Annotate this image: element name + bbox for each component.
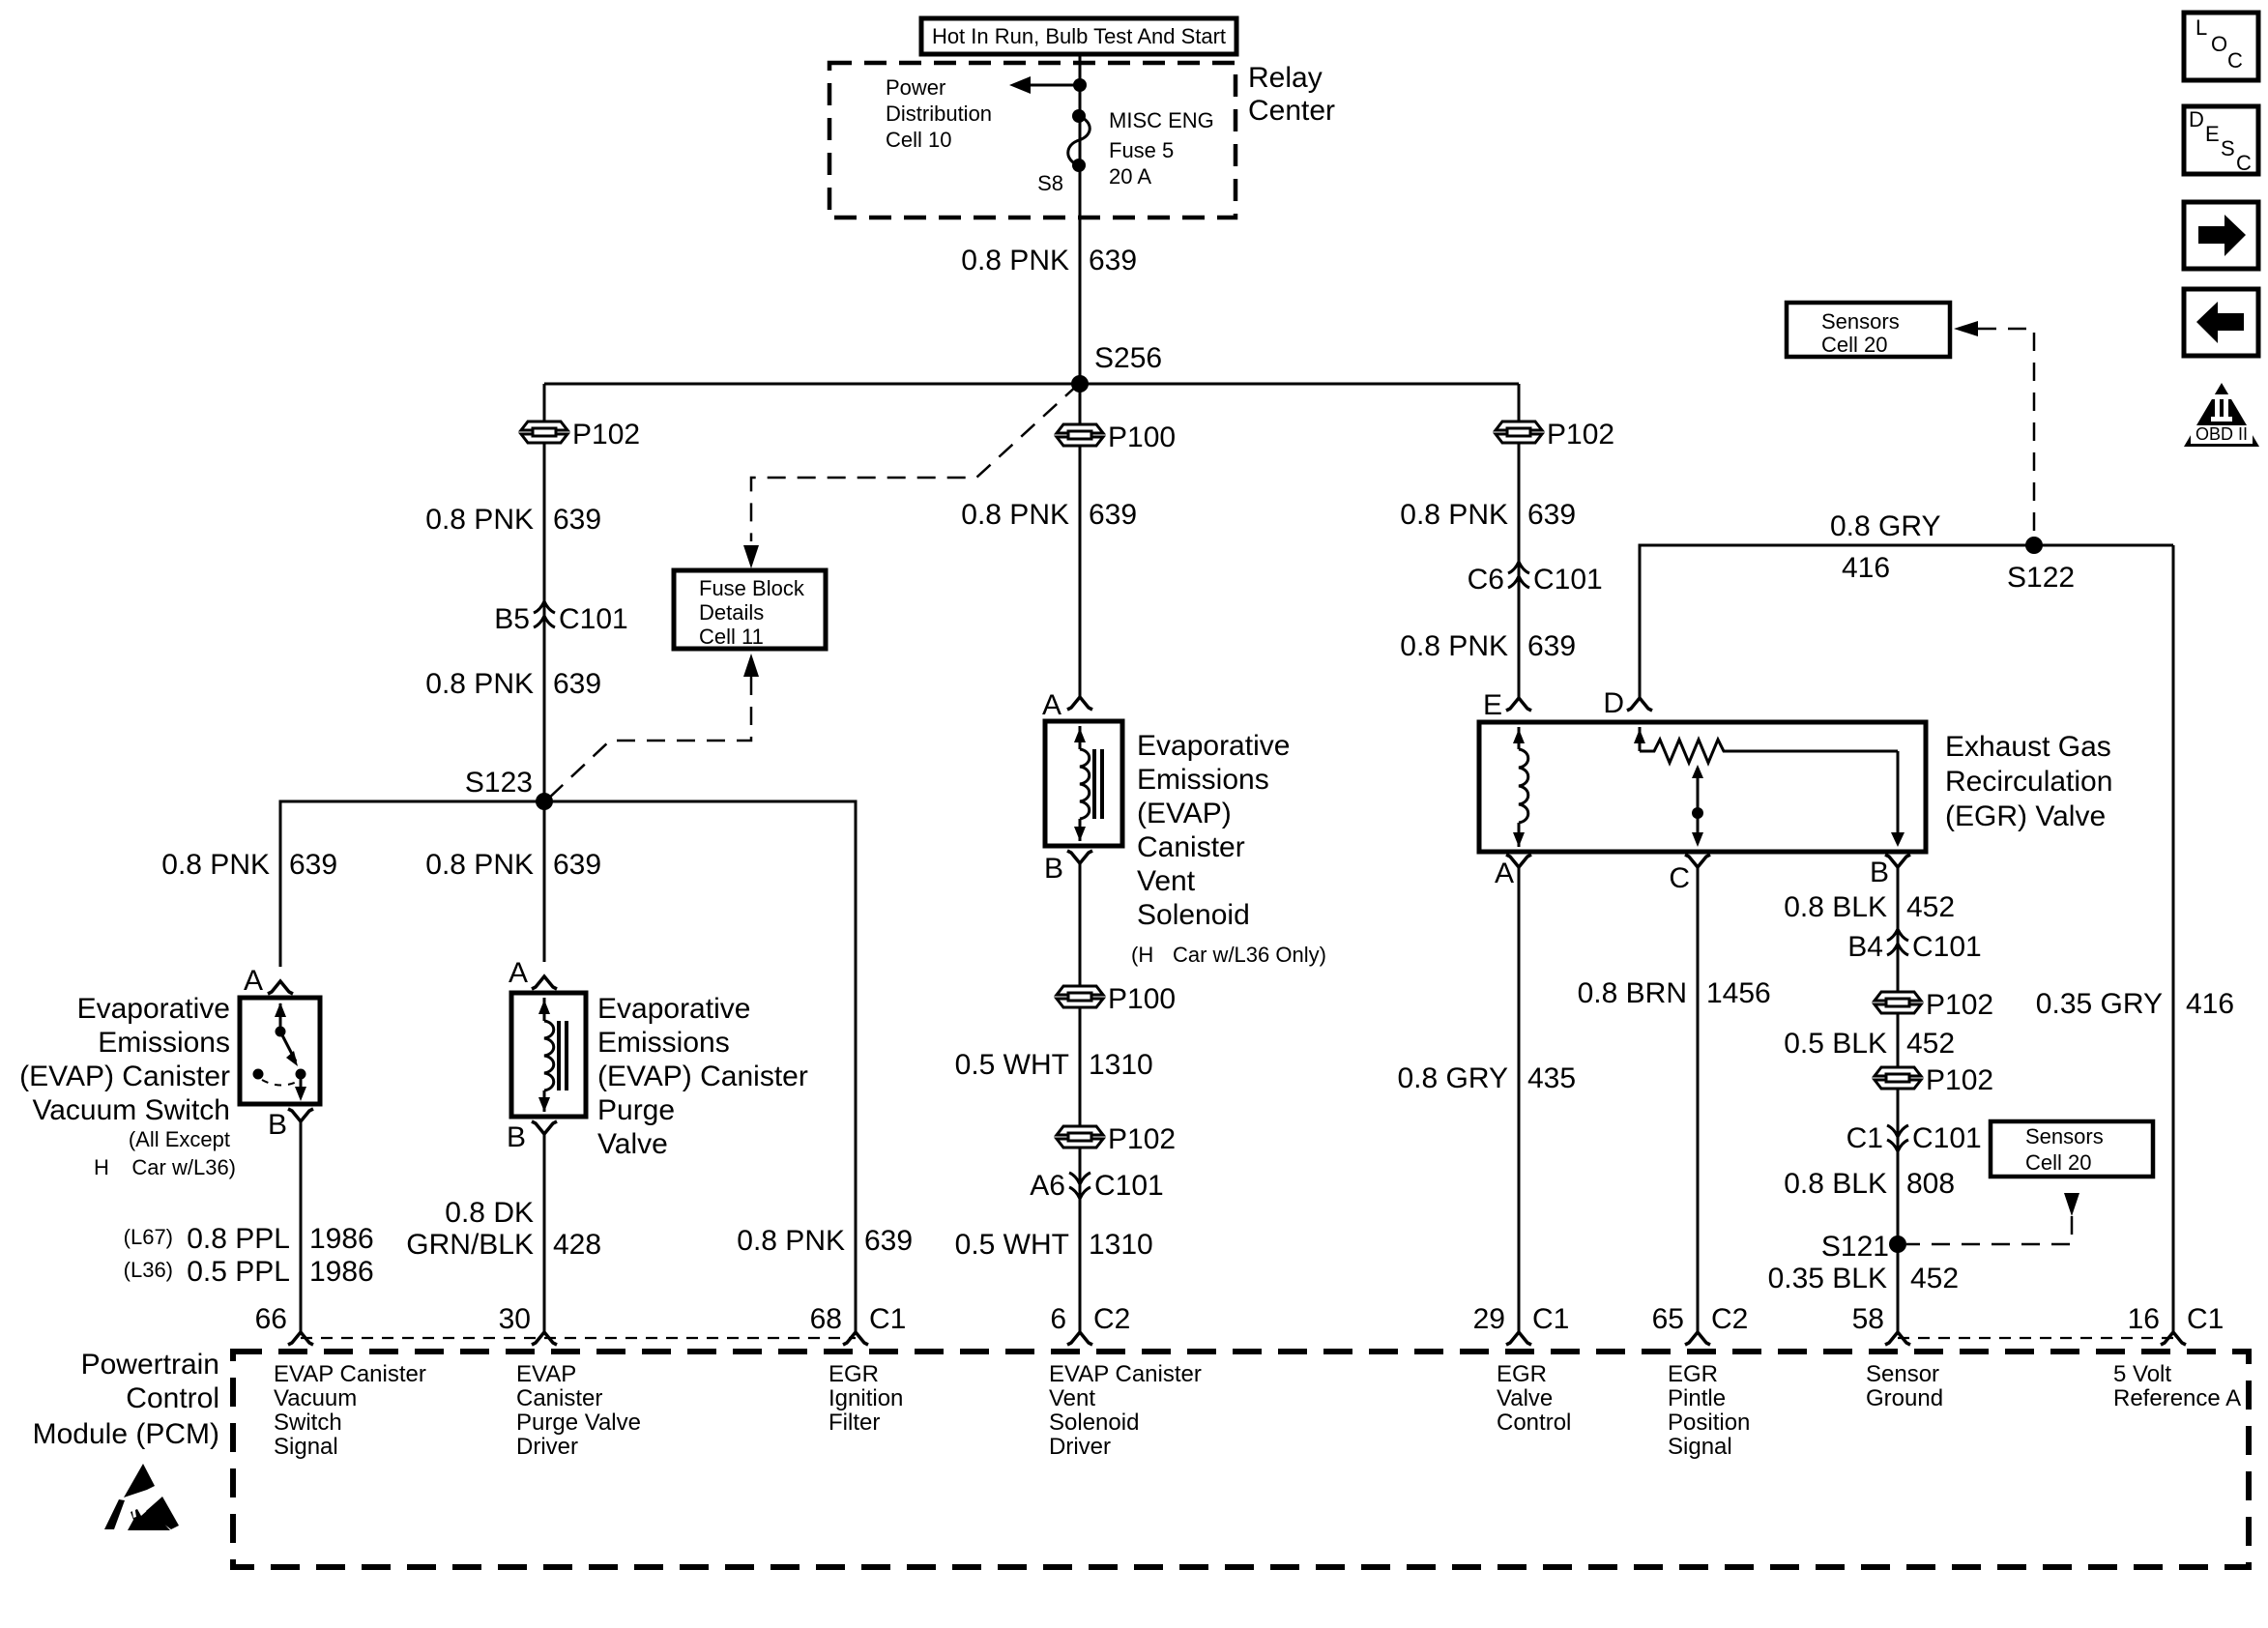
label 0.8 PNK 639 (middle) bbox=[961, 499, 1137, 531]
label MISC ENG Fuse 5 20 A bbox=[1109, 108, 1214, 189]
svg-text:Solenoid: Solenoid bbox=[1137, 899, 1250, 931]
svg-text:Switch: Switch bbox=[274, 1410, 342, 1436]
vent solenoid coil bbox=[1074, 726, 1102, 841]
PCM pin 30 fork bbox=[532, 1332, 557, 1345]
svg-text:D: D bbox=[1603, 687, 1624, 719]
svg-text:(L36): (L36) bbox=[124, 1258, 173, 1282]
svg-text:O: O bbox=[2211, 32, 2227, 56]
svg-text:Purge Valve: Purge Valve bbox=[516, 1410, 641, 1436]
svg-text:0.5 PPL: 0.5 PPL bbox=[187, 1256, 290, 1288]
svg-text:C1: C1 bbox=[1846, 1122, 1883, 1154]
svg-text:0.8 BLK: 0.8 BLK bbox=[1784, 891, 1887, 923]
svg-text:OBD II: OBD II bbox=[2195, 424, 2248, 444]
svg-text:0.8 BRN: 0.8 BRN bbox=[1578, 977, 1687, 1009]
label B5 C101 bbox=[494, 603, 627, 635]
label EGR Pintle Position Signal bbox=[1668, 1361, 1750, 1460]
Sensors Cell 20 box (lower) bbox=[1991, 1121, 2153, 1177]
svg-text:452: 452 bbox=[1906, 1028, 1955, 1060]
connector P102 (left branch) bbox=[521, 422, 567, 443]
node junction at Power Distribution tap bbox=[1073, 78, 1087, 92]
svg-text:A: A bbox=[509, 957, 528, 989]
svg-text:Reference A: Reference A bbox=[2113, 1385, 2241, 1411]
svg-text:Fuse Block: Fuse Block bbox=[699, 576, 805, 600]
svg-text:A: A bbox=[1042, 689, 1061, 721]
svg-text:(EVAP) Canister: (EVAP) Canister bbox=[597, 1061, 808, 1092]
wire S123 right branch to pin 68 bbox=[544, 801, 856, 1331]
svg-text:Hot In Run, Bulb Test And Star: Hot In Run, Bulb Test And Start bbox=[932, 24, 1226, 48]
connector P102 (B column upper) bbox=[1875, 992, 1921, 1013]
label 0.8 GRY 416 bbox=[1830, 510, 1941, 584]
icon OBD II triangle bbox=[2184, 383, 2259, 447]
label EVAP Canister Vent Solenoid Driver bbox=[1049, 1361, 1202, 1460]
svg-text:(L67): (L67) bbox=[124, 1225, 173, 1249]
icon LOC box bbox=[2184, 13, 2258, 80]
svg-text:B: B bbox=[1870, 857, 1889, 888]
svg-text:Module (PCM): Module (PCM) bbox=[33, 1418, 219, 1450]
svg-text:Center: Center bbox=[1248, 95, 1335, 127]
connector P102 (middle) bbox=[1057, 1126, 1103, 1148]
svg-text:0.8 DK: 0.8 DK bbox=[445, 1197, 534, 1229]
arrow to Power Distribution bbox=[1009, 76, 1031, 94]
node S122 bbox=[2025, 537, 2043, 554]
svg-text:Power: Power bbox=[886, 75, 945, 100]
label (L36) 0.5 PPL 1986 bbox=[124, 1256, 374, 1288]
svg-text:Distribution: Distribution bbox=[886, 102, 992, 126]
label 0.35 GRY 416 bbox=[2036, 988, 2234, 1020]
svg-text:C2: C2 bbox=[1093, 1303, 1130, 1335]
svg-text:B4: B4 bbox=[1847, 931, 1883, 963]
pin A fork (EGR) bbox=[1506, 855, 1531, 867]
svg-text:C: C bbox=[2227, 48, 2243, 73]
label 0.8 PNK 639 bbox=[425, 504, 601, 536]
reference dashed line S256 to Fuse Block Details bbox=[751, 384, 1079, 541]
svg-text:EVAP Canister: EVAP Canister bbox=[1049, 1361, 1202, 1387]
icon DESC box bbox=[2184, 106, 2258, 175]
label Powertrain Control Module (PCM) bbox=[33, 1349, 219, 1450]
svg-text:Signal: Signal bbox=[1668, 1434, 1732, 1460]
svg-text:6: 6 bbox=[1050, 1303, 1066, 1335]
pin B fork (vacuum switch) bbox=[288, 1109, 313, 1121]
svg-text:P102: P102 bbox=[1926, 1064, 1993, 1096]
svg-text:Cell 20: Cell 20 bbox=[1821, 333, 1887, 357]
svg-text:C6: C6 bbox=[1468, 564, 1504, 596]
fuse box label "Hot In Run, Bulb Test And Start" bbox=[921, 18, 1236, 54]
svg-text:S122: S122 bbox=[2007, 562, 2075, 594]
svg-text:Valve: Valve bbox=[597, 1128, 668, 1160]
svg-text:Cell 20: Cell 20 bbox=[2025, 1150, 2091, 1175]
label Evaporative Emissions (EVAP) Canister Purge Valve bbox=[597, 993, 808, 1160]
arrow from Sensors box toward S121 bbox=[2064, 1193, 2079, 1216]
svg-text:Vacuum: Vacuum bbox=[274, 1385, 357, 1411]
svg-text:Evaporative: Evaporative bbox=[1137, 730, 1290, 762]
svg-text:S8: S8 bbox=[1037, 171, 1063, 195]
svg-text:Evaporative: Evaporative bbox=[77, 993, 230, 1025]
pin B fork (EGR) bbox=[1885, 855, 1910, 867]
pin A fork (purge valve) bbox=[532, 976, 557, 989]
label 0.5 BLK 452 bbox=[1784, 1028, 1955, 1060]
svg-text:20 A: 20 A bbox=[1109, 164, 1151, 189]
label B4 C101 bbox=[1847, 931, 1981, 963]
svg-text:Exhaust Gas: Exhaust Gas bbox=[1945, 731, 2111, 763]
svg-text:Driver: Driver bbox=[1049, 1434, 1111, 1460]
svg-text:C1: C1 bbox=[1532, 1303, 1569, 1335]
EVAP canister vent solenoid box bbox=[1045, 721, 1122, 846]
svg-text:(EVAP): (EVAP) bbox=[1137, 798, 1232, 829]
svg-text:C: C bbox=[1669, 862, 1690, 894]
svg-text:808: 808 bbox=[1906, 1168, 1955, 1200]
svg-text:C101: C101 bbox=[1912, 931, 1982, 963]
svg-text:Emissions: Emissions bbox=[597, 1027, 730, 1059]
svg-text:Solenoid: Solenoid bbox=[1049, 1410, 1139, 1436]
svg-text:639: 639 bbox=[553, 504, 601, 536]
svg-text:30: 30 bbox=[499, 1303, 531, 1335]
svg-text:Sensor: Sensor bbox=[1866, 1361, 1939, 1387]
arrow into Sensors box bbox=[1954, 321, 1978, 336]
svg-text:0.35 BLK: 0.35 BLK bbox=[1768, 1263, 1887, 1294]
pin B fork (purge valve) bbox=[532, 1121, 557, 1134]
label 0.8 PNK 639 (right upper) bbox=[1400, 499, 1576, 531]
Fuse Block Details Cell 11 box bbox=[674, 570, 826, 649]
label 0.5 WHT 1310 bbox=[955, 1049, 1153, 1081]
pin number 68 C1 bbox=[810, 1303, 907, 1335]
wire 5 volt reference from 416 line to PCM pin 16 bbox=[2172, 545, 2175, 1331]
label 0.8 PNK 639 (vacuum switch wire) bbox=[161, 849, 337, 881]
svg-text:S121: S121 bbox=[1821, 1231, 1889, 1263]
svg-text:P102: P102 bbox=[572, 419, 640, 451]
ESD sensitive device symbol bbox=[104, 1464, 179, 1530]
PCM pin 6 fork bbox=[1067, 1332, 1092, 1345]
svg-text:P100: P100 bbox=[1108, 422, 1176, 453]
svg-text:639: 639 bbox=[1527, 499, 1576, 531]
PCM pin 68 fork bbox=[843, 1332, 868, 1345]
svg-text:E: E bbox=[1483, 689, 1502, 721]
svg-text:0.8 PNK: 0.8 PNK bbox=[425, 849, 534, 881]
svg-text:A6: A6 bbox=[1030, 1170, 1065, 1202]
svg-text:639: 639 bbox=[1089, 245, 1137, 276]
svg-text:(EGR) Valve: (EGR) Valve bbox=[1945, 800, 2106, 832]
wire right branch from bus down to EGR pin E bbox=[1518, 384, 1521, 698]
svg-text:416: 416 bbox=[1842, 552, 1890, 584]
svg-text:0.8 PNK: 0.8 PNK bbox=[961, 245, 1069, 276]
icon back arrow box bbox=[2184, 289, 2258, 356]
svg-text:639: 639 bbox=[864, 1225, 913, 1257]
reference dashed line S122 to Sensors bbox=[1978, 329, 2034, 537]
svg-text:C101: C101 bbox=[1094, 1170, 1164, 1202]
svg-text:Driver: Driver bbox=[516, 1434, 578, 1460]
pin E fork (EGR) bbox=[1506, 698, 1531, 711]
svg-text:P100: P100 bbox=[1108, 983, 1176, 1015]
fuse MISC ENG Fuse 5 20A bbox=[1068, 109, 1090, 172]
svg-text:639: 639 bbox=[1527, 630, 1576, 662]
vacuum switch contact arm bbox=[253, 1003, 307, 1101]
svg-text:0.8 PNK: 0.8 PNK bbox=[425, 668, 534, 700]
connector C101 pin C6 (double chevron up) bbox=[1508, 562, 1529, 588]
svg-text:E: E bbox=[2205, 122, 2220, 146]
wire S123 left branch horizontal bbox=[280, 801, 544, 967]
svg-text:0.5 WHT: 0.5 WHT bbox=[955, 1049, 1069, 1081]
svg-text:C1: C1 bbox=[869, 1303, 906, 1335]
svg-text:(EVAP) Canister: (EVAP) Canister bbox=[19, 1061, 230, 1092]
EGR potentiometer wiper bbox=[1692, 765, 1703, 847]
pin B fork (vent solenoid) bbox=[1067, 851, 1092, 863]
PCM pin 16 fork bbox=[2161, 1332, 2186, 1345]
EGR pintle position potentiometer bbox=[1634, 727, 1905, 847]
svg-text:Control: Control bbox=[126, 1382, 219, 1414]
arrow into Fuse Block box bottom bbox=[743, 654, 759, 677]
wire main bus from S256 bbox=[544, 383, 1519, 386]
reference dashed line S121 to Sensors bbox=[1906, 1216, 2072, 1244]
svg-text:S123: S123 bbox=[465, 767, 533, 799]
svg-text:1310: 1310 bbox=[1089, 1229, 1153, 1261]
svg-text:P102: P102 bbox=[1108, 1123, 1176, 1155]
svg-text:Vent: Vent bbox=[1137, 865, 1196, 897]
pin number 16 C1 bbox=[2128, 1303, 2224, 1335]
wire EGR B to PCM pin 58 bbox=[1897, 867, 1900, 1331]
pin number 6 C2 bbox=[1050, 1303, 1130, 1335]
svg-text:639: 639 bbox=[553, 668, 601, 700]
svg-text:H: H bbox=[94, 1155, 109, 1179]
svg-text:P102: P102 bbox=[1926, 989, 1993, 1021]
svg-text:Car w/L36): Car w/L36) bbox=[131, 1155, 236, 1179]
label EGR Valve Control bbox=[1497, 1361, 1571, 1436]
connector P102 (B column lower) bbox=[1875, 1067, 1921, 1089]
Relay Center dashed box bbox=[829, 63, 1236, 218]
svg-text:Car w/L36 Only): Car w/L36 Only) bbox=[1173, 943, 1326, 967]
label 0.5 WHT 1310 (lower) bbox=[955, 1229, 1153, 1261]
svg-text:639: 639 bbox=[289, 849, 337, 881]
svg-text:Fuse 5: Fuse 5 bbox=[1109, 138, 1174, 162]
svg-text:EGR: EGR bbox=[829, 1361, 879, 1387]
pin C fork (EGR) bbox=[1685, 855, 1710, 867]
svg-text:29: 29 bbox=[1473, 1303, 1505, 1335]
svg-text:Sensors: Sensors bbox=[2025, 1124, 2104, 1148]
svg-text:S: S bbox=[2221, 136, 2235, 160]
PCM pin 65 fork bbox=[1685, 1332, 1710, 1345]
svg-text:452: 452 bbox=[1910, 1263, 1959, 1294]
pin D fork (EGR) bbox=[1627, 698, 1652, 711]
pin A fork (vacuum switch) bbox=[268, 981, 293, 994]
label 0.8 BRN 1456 bbox=[1578, 977, 1771, 1009]
label EVAP Canister Vacuum Switch Signal bbox=[274, 1361, 426, 1460]
connector C101 pin B4 (double chevron up) bbox=[1887, 929, 1908, 955]
purge valve solenoid coil bbox=[538, 998, 567, 1112]
svg-text:Filter: Filter bbox=[829, 1410, 880, 1436]
svg-text:Position: Position bbox=[1668, 1410, 1750, 1436]
label 0.8 PNK 639 (purge valve wire) bbox=[425, 849, 601, 881]
PCM pin 66 fork bbox=[288, 1332, 313, 1345]
svg-text:Evaporative: Evaporative bbox=[597, 993, 750, 1025]
svg-text:639: 639 bbox=[553, 849, 601, 881]
svg-text:0.8 PNK: 0.8 PNK bbox=[961, 499, 1069, 531]
svg-text:0.8 PNK: 0.8 PNK bbox=[1400, 630, 1508, 662]
EGR solenoid coil bbox=[1513, 727, 1528, 847]
svg-text:0.8 BLK: 0.8 BLK bbox=[1784, 1168, 1887, 1200]
svg-text:Sensors: Sensors bbox=[1821, 309, 1900, 334]
EVAP canister vacuum switch box bbox=[240, 998, 320, 1104]
PCM dashed box bbox=[233, 1352, 2249, 1567]
svg-text:0.8 PPL: 0.8 PPL bbox=[187, 1223, 290, 1255]
svg-text:0.8 GRY: 0.8 GRY bbox=[1397, 1062, 1508, 1094]
svg-text:C101: C101 bbox=[1912, 1122, 1982, 1154]
PCM pin 58 fork bbox=[1885, 1332, 1910, 1345]
label 0.8 PNK 639 (EGR ignition filter wire) bbox=[737, 1225, 913, 1257]
label EVAP Canister Purge Valve Driver bbox=[516, 1361, 641, 1460]
svg-text:1456: 1456 bbox=[1706, 977, 1771, 1009]
thin dashed pin line 66 to 68 bbox=[301, 1337, 856, 1339]
label C1 C101 bbox=[1846, 1122, 1982, 1154]
svg-text:EGR: EGR bbox=[1668, 1361, 1718, 1387]
svg-text:Vacuum Switch: Vacuum Switch bbox=[32, 1094, 230, 1126]
connector P100 (below vent solenoid) bbox=[1057, 986, 1103, 1007]
svg-text:5 Volt: 5 Volt bbox=[2113, 1361, 2171, 1387]
label Evaporative Emissions (EVAP) Canister Vacuum Switch bbox=[19, 993, 236, 1179]
svg-text:428: 428 bbox=[553, 1229, 601, 1261]
label 0.8 PNK 639 (below C101) bbox=[425, 668, 601, 700]
wire S256 down to vent solenoid bbox=[1079, 384, 1082, 697]
svg-text:GRN/BLK: GRN/BLK bbox=[406, 1229, 534, 1261]
svg-text:1986: 1986 bbox=[309, 1256, 374, 1288]
label Evaporative Emissions (EVAP) Canister Vent Solenoid bbox=[1131, 730, 1326, 967]
label EGR Ignition Filter bbox=[829, 1361, 903, 1436]
svg-text:Ground: Ground bbox=[1866, 1385, 1943, 1411]
svg-text:C2: C2 bbox=[1711, 1303, 1748, 1335]
svg-text:639: 639 bbox=[1089, 499, 1137, 531]
label A6 C101 bbox=[1030, 1170, 1163, 1202]
svg-text:0.35 GRY: 0.35 GRY bbox=[2036, 988, 2163, 1020]
svg-text:A: A bbox=[244, 965, 263, 997]
label Exhaust Gas Recirculation (EGR) Valve bbox=[1945, 731, 2112, 832]
svg-text:Details: Details bbox=[699, 600, 764, 625]
label 0.35 BLK 452 bbox=[1768, 1263, 1960, 1294]
svg-text:MISC ENG: MISC ENG bbox=[1109, 108, 1214, 132]
svg-text:452: 452 bbox=[1906, 891, 1955, 923]
svg-text:Pintle: Pintle bbox=[1668, 1385, 1726, 1411]
svg-text:0.5 WHT: 0.5 WHT bbox=[955, 1229, 1069, 1261]
label 0.8 BLK 452 bbox=[1784, 891, 1955, 923]
wire vent solenoid B to PCM pin 6 bbox=[1079, 863, 1082, 1331]
label Power Distribution Cell 10 bbox=[886, 75, 992, 152]
svg-text:B: B bbox=[268, 1109, 287, 1141]
svg-text:B: B bbox=[507, 1121, 526, 1153]
label Relay Center bbox=[1248, 62, 1335, 127]
svg-text:65: 65 bbox=[1652, 1303, 1684, 1335]
wire from Hot-In-Run feed down to S256 bbox=[1079, 54, 1082, 384]
node S121 bbox=[1889, 1236, 1906, 1253]
svg-text:EVAP Canister: EVAP Canister bbox=[274, 1361, 426, 1387]
pin number 29 C1 bbox=[1473, 1303, 1570, 1335]
svg-text:Signal: Signal bbox=[274, 1434, 338, 1460]
svg-text:0.8 PNK: 0.8 PNK bbox=[425, 504, 534, 536]
label 0.8 BLK 808 bbox=[1784, 1168, 1955, 1200]
svg-text:Powertrain: Powertrain bbox=[81, 1349, 219, 1381]
connector C101 pin B5 (double chevron up) bbox=[534, 601, 555, 627]
arrow into Fuse Block box top bbox=[743, 545, 759, 568]
svg-text:58: 58 bbox=[1852, 1303, 1884, 1335]
svg-text:0.8 PNK: 0.8 PNK bbox=[737, 1225, 845, 1257]
svg-text:EGR: EGR bbox=[1497, 1361, 1547, 1387]
label 0.8 GRY 435 bbox=[1397, 1062, 1576, 1094]
EVAP canister purge valve box bbox=[511, 993, 586, 1117]
svg-text:Canister: Canister bbox=[1137, 831, 1245, 863]
EGR valve box bbox=[1479, 722, 1926, 852]
label 0.8 PNK 639 (right lower) bbox=[1400, 630, 1576, 662]
svg-text:Cell 11: Cell 11 bbox=[699, 625, 764, 649]
svg-text:Recirculation: Recirculation bbox=[1945, 766, 2112, 798]
svg-text:L: L bbox=[2195, 15, 2207, 40]
svg-text:Purge: Purge bbox=[597, 1094, 675, 1126]
svg-text:68: 68 bbox=[810, 1303, 842, 1335]
thin dashed pin line 58 to 16 bbox=[1898, 1337, 2173, 1339]
svg-text:Cell 10: Cell 10 bbox=[886, 128, 951, 152]
svg-text:B5: B5 bbox=[494, 603, 530, 635]
PCM pin 29 fork bbox=[1506, 1332, 1531, 1345]
svg-text:1986: 1986 bbox=[309, 1223, 374, 1255]
icon forward arrow box bbox=[2184, 202, 2258, 269]
wire EGR A to PCM pin 29 bbox=[1518, 867, 1521, 1331]
svg-text:B: B bbox=[1044, 853, 1063, 885]
svg-text:Control: Control bbox=[1497, 1410, 1571, 1436]
label Sensor Ground bbox=[1866, 1361, 1943, 1411]
svg-text:66: 66 bbox=[255, 1303, 287, 1335]
label (L67) 0.8 PPL 1986 bbox=[124, 1223, 374, 1255]
wire EGR pin D up to 416 line bbox=[1640, 545, 2173, 698]
svg-text:0.5 BLK: 0.5 BLK bbox=[1784, 1028, 1887, 1060]
wire left branch from bus down to S123 bbox=[543, 384, 546, 801]
connector C101 pin C1 (double chevron down) bbox=[1887, 1125, 1908, 1151]
reference dashed line S123 to Fuse Block Details bbox=[545, 677, 751, 801]
label 5 Volt Reference A bbox=[2113, 1361, 2241, 1411]
svg-text:C: C bbox=[2236, 151, 2252, 175]
svg-text:16: 16 bbox=[2128, 1303, 2160, 1335]
svg-text:0.8 PNK: 0.8 PNK bbox=[1400, 499, 1508, 531]
wire EGR C to PCM pin 65 bbox=[1697, 867, 1700, 1331]
connector P100 (below S256) bbox=[1057, 424, 1103, 446]
svg-text:Relay: Relay bbox=[1248, 62, 1323, 94]
svg-text:Emissions: Emissions bbox=[98, 1027, 230, 1059]
wire vacuum switch B to PCM pin 66 bbox=[300, 1121, 303, 1331]
label C6 C101 bbox=[1468, 564, 1603, 596]
svg-text:P102: P102 bbox=[1547, 419, 1614, 451]
svg-text:Emissions: Emissions bbox=[1137, 764, 1269, 796]
svg-text:C1: C1 bbox=[2187, 1303, 2224, 1335]
svg-text:0.8 GRY: 0.8 GRY bbox=[1830, 510, 1941, 542]
svg-text:Canister: Canister bbox=[516, 1385, 602, 1411]
connector C101 pin A6 (double chevron down) bbox=[1069, 1173, 1090, 1199]
connector P102 (right branch) bbox=[1496, 422, 1542, 443]
svg-text:S256: S256 bbox=[1094, 342, 1162, 374]
wire tap to Power Distribution bbox=[1028, 84, 1080, 87]
svg-text:EVAP: EVAP bbox=[516, 1361, 576, 1387]
svg-text:(H: (H bbox=[1131, 943, 1153, 967]
wire purge valve B to PCM pin 30 bbox=[543, 1134, 546, 1331]
node S123 bbox=[536, 793, 553, 810]
svg-text:C101: C101 bbox=[559, 603, 628, 635]
svg-text:0.8 PNK: 0.8 PNK bbox=[161, 849, 270, 881]
label 0.8 PNK 639 (feed wire) bbox=[961, 245, 1137, 276]
wire S123 down to purge valve bbox=[543, 801, 546, 962]
svg-text:D: D bbox=[2189, 107, 2204, 131]
svg-text:Valve: Valve bbox=[1497, 1385, 1553, 1411]
svg-text:Ignition: Ignition bbox=[829, 1385, 903, 1411]
Sensors Cell 20 box (top) bbox=[1787, 303, 1950, 357]
svg-text:416: 416 bbox=[2186, 988, 2234, 1020]
svg-text:C101: C101 bbox=[1533, 564, 1603, 596]
svg-text:Vent: Vent bbox=[1049, 1385, 1095, 1411]
label 0.8 DK GRN/BLK 428 bbox=[406, 1197, 601, 1261]
pin A fork (vent solenoid) bbox=[1067, 697, 1092, 710]
svg-text:435: 435 bbox=[1527, 1062, 1576, 1094]
pin number 65 C2 bbox=[1652, 1303, 1749, 1335]
